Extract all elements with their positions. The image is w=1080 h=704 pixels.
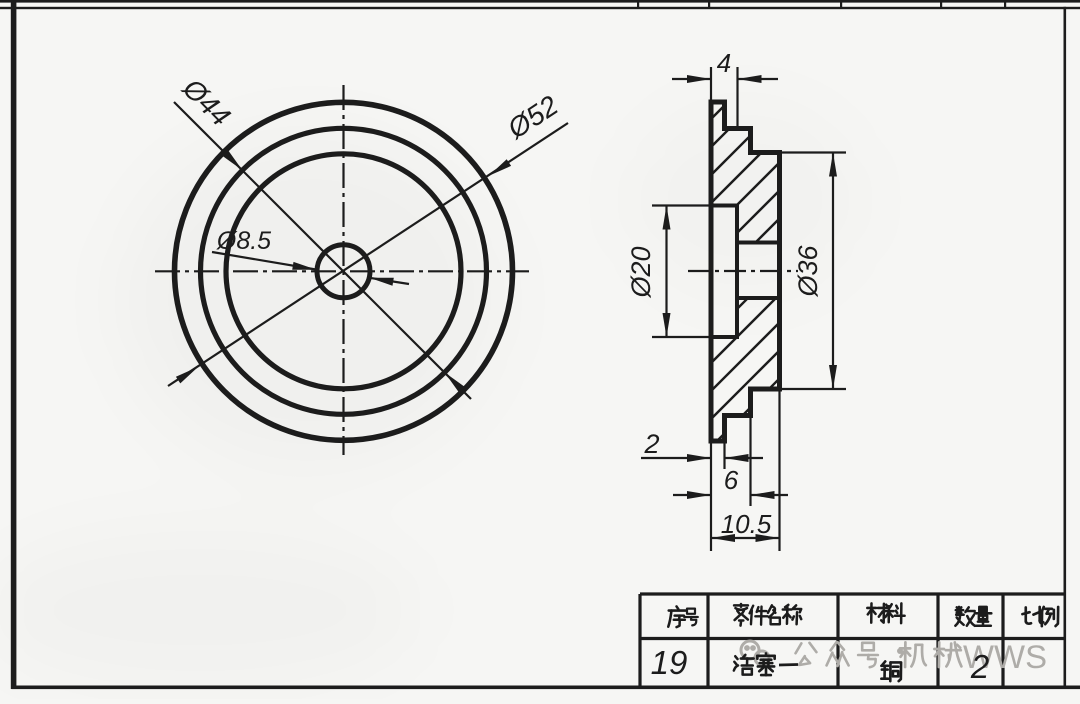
section profile outline	[711, 102, 780, 441]
top table remnant line	[0, 0, 1080, 3]
dim 4: left extension	[710, 67, 712, 102]
svg-text:Ø8.5: Ø8.5	[216, 227, 271, 255]
arrowhead D52 upper right	[489, 159, 511, 176]
frame right border	[1064, 7, 1067, 689]
hatching upper solid region	[370, 60, 966, 460]
dim 2: right extension	[723, 441, 725, 469]
section centerline	[688, 270, 798, 272]
dim 10.5: arrowhead left	[711, 534, 735, 542]
svg-text:6: 6	[724, 465, 739, 495]
table header: xu hao	[668, 606, 685, 627]
svg-text:10.5: 10.5	[721, 509, 772, 539]
table data: huo sai (piston)	[734, 655, 754, 675]
table header: bi li	[1022, 607, 1043, 624]
dim D20: arrowhead down	[663, 313, 671, 337]
hole D8.5 top line	[737, 241, 780, 245]
frame top border	[0, 7, 1080, 9]
front view vertical centerline	[342, 85, 344, 455]
dim 4: dimension line right part	[738, 78, 779, 80]
dim 6: arrowhead left	[687, 491, 711, 499]
svg-text:Ø20: Ø20	[626, 246, 656, 298]
dim D36: arrowhead down	[829, 365, 837, 389]
arrowhead D8.5 right	[370, 278, 394, 286]
dim D36: bottom extension	[780, 388, 847, 390]
arrowhead D44 upper	[223, 150, 243, 170]
dim 4: arrowhead left	[687, 75, 711, 83]
dim 4: right extension	[736, 67, 738, 131]
dim D36: dimension line	[832, 153, 834, 390]
circle D44	[201, 128, 487, 414]
center hole circle D8.5	[317, 245, 370, 298]
bore D20 outline	[711, 206, 737, 338]
dim 6: arrowhead right	[751, 491, 775, 499]
arrowhead D52 lower left	[176, 367, 198, 384]
dim 2: dimension line left part	[641, 457, 711, 459]
frame left border	[11, 0, 17, 689]
dim D36: top extension	[780, 151, 847, 153]
dimension line D52 diagonal	[168, 123, 568, 386]
table header: cai liao	[867, 603, 887, 622]
top table column ticks	[637, 0, 639, 9]
dim 10.5: right extension	[778, 389, 780, 551]
dim 10.5: arrowhead right	[756, 534, 780, 542]
leader line D8.5 left	[212, 252, 316, 270]
dim D20: arrowhead up	[663, 206, 671, 230]
dim D36: arrowhead up	[829, 153, 837, 177]
dim 10.5: left extension	[710, 441, 712, 551]
front view horizontal centerline	[155, 270, 529, 272]
dim D20: bottom extension	[652, 336, 711, 338]
title block table lines	[640, 594, 1064, 687]
svg-text:2: 2	[643, 429, 659, 459]
dim 4: dimension line left part	[672, 78, 711, 80]
hole D8.5 bottom line	[737, 296, 780, 300]
table header: ling jian ming cheng	[734, 604, 748, 626]
table data: tong (copper)	[881, 661, 901, 681]
dimension line D44 diagonal	[174, 102, 471, 399]
dim D20: dimension line	[665, 206, 667, 338]
dim D20: top extension	[652, 204, 711, 206]
circle D36	[226, 154, 461, 389]
dim 4: arrowhead right	[738, 75, 762, 83]
frame bottom border	[12, 686, 1080, 690]
svg-text:2: 2	[970, 648, 989, 685]
dim 10.5: dimension line	[711, 537, 780, 539]
outer circle D52	[175, 102, 513, 440]
arrowhead D44 lower	[445, 372, 465, 392]
watermark logo	[741, 641, 769, 665]
dim 2: dimension line right part	[725, 457, 764, 459]
svg-text:Ø36: Ø36	[793, 245, 823, 298]
dim 6: dimension line left part	[673, 494, 711, 496]
hatching lower solid region	[586, 260, 954, 460]
svg-text:19: 19	[651, 644, 688, 681]
dim 6: dimension line right part	[751, 494, 789, 496]
table header: shu liang	[955, 607, 974, 626]
dim 2: arrowhead left	[687, 454, 711, 462]
arrowhead D8.5 left	[292, 262, 316, 270]
watermark text	[796, 643, 817, 665]
svg-text:4: 4	[717, 48, 731, 78]
leader line D8.5 right	[370, 278, 410, 284]
dim 6: right extension	[749, 416, 751, 507]
dim 2: arrowhead right	[725, 454, 749, 462]
